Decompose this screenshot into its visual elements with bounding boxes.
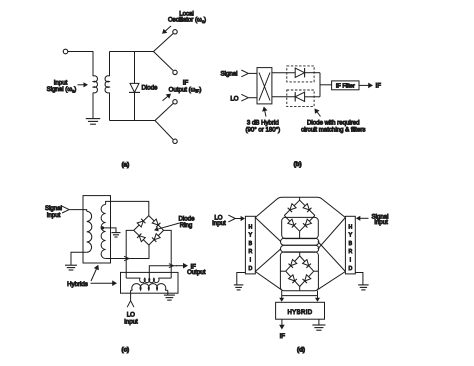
IF output arrow (d): [281, 319, 283, 326]
wire ring right vertex down to LO transformer (c): [164, 230, 172, 278]
wire bottom rail secondary to IF switch: [110, 120, 156, 122]
arrow label to ring centre (c): [157, 223, 179, 229]
hybrid 1 secondary winding (c): [101, 205, 105, 259]
lower ring enclosure (d): [280, 252, 318, 291]
lower ring diode bottom-left (d): [286, 271, 300, 286]
arrow Hybrids to hybrid 1 (c): [91, 268, 97, 281]
svg-text:Diode: Diode: [142, 85, 159, 92]
wire bus to IF filter (b): [320, 84, 332, 86]
svg-text:Signal (ωs): Signal (ωs): [47, 86, 77, 93]
arrow IF output (b): [359, 84, 369, 86]
lower ring diode top-right (d): [300, 256, 314, 271]
wire ring left vertex down to LO transformer (c): [126, 230, 134, 278]
wire top rail secondary to LO switch: [110, 51, 154, 53]
svg-text:B: B: [349, 241, 353, 247]
wire primary bottom to ground (c): [71, 252, 87, 265]
lower ring diode bottom-right (d): [300, 271, 314, 286]
LO input open arrow (d): [228, 219, 235, 222]
IF output wire from centre tap with hop (c): [149, 266, 177, 281]
svg-text:Y: Y: [349, 233, 353, 239]
svg-text:I: I: [250, 258, 251, 264]
arrow to IF output contact: [163, 96, 169, 101]
diode D3 reversed (b): [295, 92, 304, 101]
IF switch lower contact line: [155, 121, 173, 140]
svg-text:3 dB Hybrid: 3 dB Hybrid: [247, 119, 279, 126]
wire hybrid to diode D2 (b): [272, 72, 295, 74]
LO switch upper contact line: [154, 34, 174, 52]
LO input open arrow (b): [241, 98, 248, 101]
wire primary bottom to ground: [92, 93, 94, 119]
wire signal to hybrid (b): [248, 72, 257, 74]
svg-text:Signal: Signal: [221, 70, 238, 77]
svg-text:Hybrids: Hybrids: [67, 281, 88, 288]
upper ring bottom stem (d): [299, 231, 301, 238]
LO switch lower contact line: [154, 52, 174, 71]
LO input open arrow (c): [131, 301, 134, 308]
wire input terminal to transformer primary top: [68, 52, 93, 77]
wire secondary bottom to ring bottom with hop (c): [106, 245, 149, 259]
bottom hybrid ground wire (d): [318, 319, 320, 325]
diagonal left hybrid bottom to lower ring corner (d): [255, 272, 282, 291]
svg-text:H: H: [249, 224, 253, 230]
right hybrid box (d): [345, 216, 355, 274]
hybrid 2 primary winding (c): [132, 284, 166, 291]
centre-tap ground (c): [112, 232, 121, 234]
bus below lower ring (d): [282, 295, 318, 297]
svg-text:Y: Y: [249, 233, 253, 239]
upper ring diode top-right (d): [300, 200, 315, 215]
svg-text:B: B: [249, 241, 253, 247]
LO switch upper contact circle: [173, 30, 177, 34]
lower ring diode top-left (d): [286, 256, 300, 271]
ground lower-left (c): [65, 264, 77, 266]
upper ring diode bottom-left (d): [284, 216, 299, 232]
diode ring D7 bottom-left edge (points to left): [134, 230, 149, 245]
arrow Hybrids to hybrid 2 (c): [91, 282, 114, 284]
transformer T1 primary winding: [93, 76, 97, 93]
hybrid box U1 (b): [257, 68, 272, 104]
svg-text:R: R: [249, 249, 253, 255]
diode ring D5 top-right edge (points to right): [149, 216, 164, 231]
svg-text:IF: IF: [280, 333, 286, 340]
diode D1 branch wire: [134, 52, 136, 121]
ground below hybrid 2 (c): [164, 294, 175, 296]
octagon top bus (d): [255, 197, 345, 217]
centre-tap wire to ground (c): [102, 228, 116, 232]
hybrid 1 box (c): [83, 196, 111, 263]
lower ring left stub (d): [280, 270, 285, 272]
diode ring D4 top-left edge (points to top): [134, 216, 149, 231]
circuit (a) single-diode mixer : input terminal: [63, 49, 68, 54]
middle transformer stadium 2 (d): [281, 245, 319, 252]
svg-text:circuit matching & filters: circuit matching & filters: [301, 126, 365, 133]
arrow label to dashed box (b): [317, 111, 321, 116]
right hybrid ground wire (d): [355, 273, 363, 285]
signal input arrowhead into right hybrid (d): [356, 216, 360, 221]
wire diode D3 to bus (b): [305, 96, 320, 98]
IF switch lower contact circle: [173, 139, 177, 143]
wire LO to hybrid (b): [248, 97, 257, 99]
LO input wire (c): [130, 290, 132, 300]
svg-text:Output: Output: [187, 269, 206, 276]
svg-text:Input: Input: [374, 219, 388, 226]
diagonal left hybrid bottom to stadium2 (d): [255, 249, 281, 272]
signal input open arrow (c): [62, 210, 69, 213]
svg-text:(d): (d): [297, 346, 305, 353]
bus joining diodes (b): [319, 73, 321, 97]
svg-text:Input: Input: [47, 212, 61, 219]
upper ring diode top-left (d): [284, 200, 299, 215]
hybrid 2 box (c): [121, 272, 179, 293]
arrow left into bottom hybrid (d): [281, 291, 283, 296]
svg-text:I: I: [350, 258, 351, 264]
diode ring D6 bottom-right edge (points to bottom): [149, 230, 164, 245]
wire secondary top to ring top (c): [106, 201, 149, 215]
hybrid X marking (b): [259, 73, 270, 101]
ground below left hybrid (d): [234, 284, 244, 286]
transformer T1 secondary winding: [109, 52, 111, 77]
LO input wire with arrowhead into hybrid (d): [235, 218, 241, 220]
svg-text:LO: LO: [230, 95, 238, 102]
svg-text:IF Filter: IF Filter: [336, 84, 355, 90]
svg-text:HYBRID: HYBRID: [287, 310, 312, 316]
arrow to local oscillator contact: [165, 26, 171, 31]
svg-text:(b): (b): [294, 161, 302, 168]
left hybrid box (d): [245, 216, 255, 274]
lower ring bottom stem (d): [299, 287, 301, 291]
lower ring right stub (d): [314, 270, 319, 272]
svg-text:Input: Input: [212, 220, 226, 227]
svg-text:Diode with required: Diode with required: [307, 119, 360, 126]
diagonal right hybrid bottom to stadium1 crossing (d): [318, 242, 346, 272]
hybrid 2 secondary winding (c): [126, 277, 140, 279]
svg-text:(a): (a): [122, 161, 130, 168]
bottom hybrid box (d): [276, 302, 325, 319]
ground below right hybrid (d): [358, 284, 369, 286]
svg-text:Ring: Ring: [180, 222, 193, 229]
dashed matching box around D3: [287, 90, 314, 107]
arrow from Input Signal label to primary: [78, 84, 85, 86]
left hybrid ground wire (d): [237, 273, 246, 285]
secondary centre-tap dot (c): [101, 226, 104, 229]
arrow label to hybrid box (b): [265, 110, 266, 116]
wire primary right to ground (c): [167, 290, 169, 295]
svg-text:(c): (c): [122, 347, 130, 354]
svg-text:IF: IF: [376, 82, 382, 89]
upper ring diode bottom-right (d): [300, 216, 315, 232]
wire signal input to hybrid (c): [69, 210, 87, 212]
signal input open arrow (b): [241, 73, 248, 76]
svg-text:(90° or 180°): (90° or 180°): [245, 126, 280, 133]
upper ring enclosure (d): [282, 217, 319, 238]
svg-text:D: D: [249, 266, 253, 272]
lower ring top stem (d): [299, 252, 301, 256]
arrow IF output (c): [176, 265, 184, 267]
diagonal right hybrid top to stadium2 crossing (d): [318, 218, 346, 249]
IF switch upper contact circle: [173, 100, 177, 104]
svg-text:Oscillator (ωc): Oscillator (ωc): [168, 17, 206, 24]
diagonal left hybrid top to stadium1 (d): [255, 218, 281, 242]
svg-text:Input: Input: [124, 318, 138, 325]
IF switch upper contact line: [155, 104, 173, 121]
wire diode D2 to bus (b): [305, 72, 320, 74]
svg-text:D: D: [349, 266, 353, 272]
ground below bottom hybrid (d): [312, 324, 325, 326]
hybrid 1 primary winding (c): [87, 211, 92, 252]
svg-text:R: R: [349, 249, 353, 255]
dashed matching box around D2: [287, 66, 314, 82]
arrow right into bottom hybrid (d): [317, 291, 319, 296]
ground below primary: [86, 118, 101, 120]
LO switch lower contact circle: [173, 70, 177, 74]
wire hybrid to diode D3 (b): [272, 96, 295, 98]
diagonal right hybrid bottom to lower ring corner (d): [317, 272, 346, 291]
IF filter box (b): [332, 81, 359, 90]
middle transformer stadium 1 (d): [281, 238, 319, 245]
diode D2 (b): [295, 68, 304, 77]
diode D1 symbol: [130, 83, 139, 92]
upper ring top stem (d): [299, 197, 301, 200]
svg-text:H: H: [349, 224, 353, 230]
